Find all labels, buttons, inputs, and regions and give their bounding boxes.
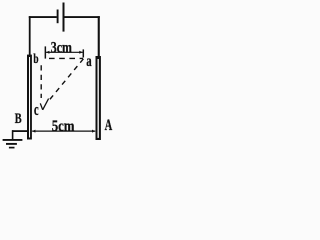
svg-text:3cm: 3cm (51, 40, 73, 57)
dimension 3cm left tick (44, 46, 46, 58)
dimension 5cm right arrowhead (92, 130, 95, 133)
plate B (left electrode) (27, 55, 32, 140)
plate A (right electrode) (96, 56, 101, 140)
dimension 5cm line (32, 130, 95, 132)
dimension 3cm line (46, 51, 83, 53)
svg-text:b: b (33, 52, 38, 67)
dimension 3cm left arrowhead (46, 51, 49, 54)
construction line b-a (dashed horizontal) (49, 57, 83, 59)
dimension 3cm right arrowhead (79, 51, 82, 54)
battery E short plate (negative terminal) (57, 10, 59, 24)
wire top-right segment (64, 16, 99, 18)
svg-text:c: c (34, 100, 39, 119)
construction line a-c (dashed diagonal) (48, 59, 84, 102)
dimension 5cm left arrowhead (32, 130, 35, 133)
svg-text:B: B (15, 111, 22, 127)
ground (3, 140, 23, 148)
wire right vertical (battery to plate A) (98, 16, 100, 57)
arrowhead at c (on a-c line) (40, 99, 48, 110)
svg-text:5cm: 5cm (52, 118, 75, 135)
svg-text:A: A (105, 117, 113, 134)
construction line b-c (dashed vertical) (40, 65, 42, 98)
dimension 3cm right tick (82, 49, 84, 57)
svg-text:a: a (86, 53, 92, 70)
wire left vertical (battery to plate B) (29, 16, 31, 55)
wire ground stem (12, 130, 14, 139)
wire bottom (plate B to ground) (12, 130, 27, 132)
wire top-left segment (29, 16, 57, 18)
battery E long plate (positive terminal) (63, 3, 65, 32)
